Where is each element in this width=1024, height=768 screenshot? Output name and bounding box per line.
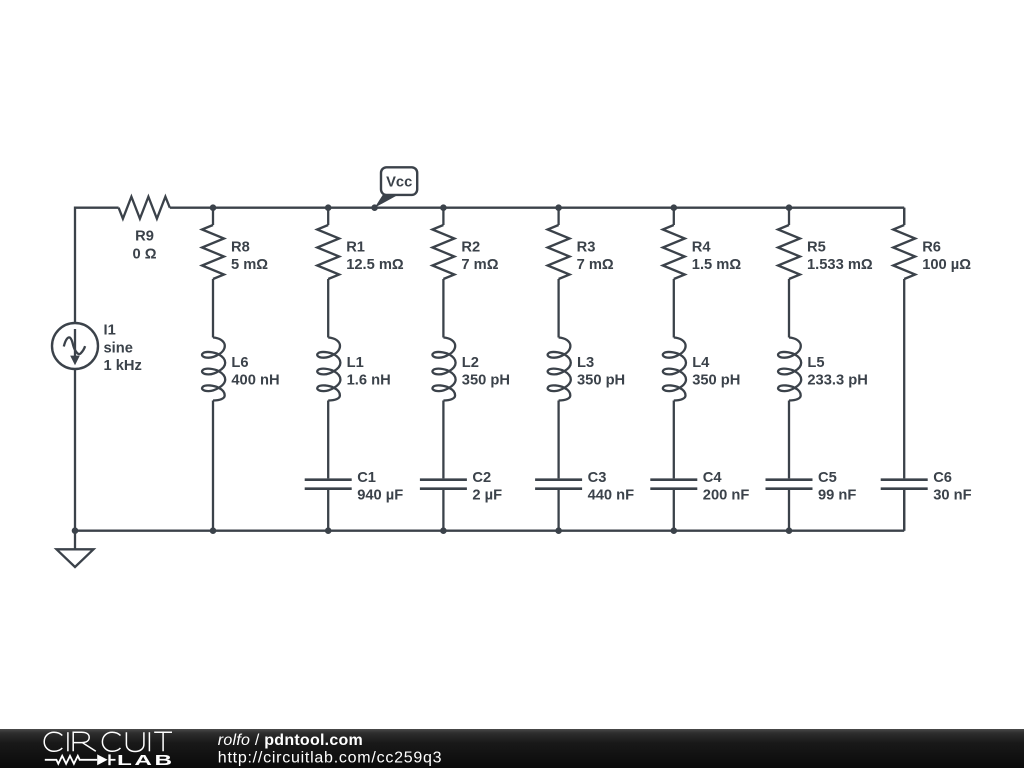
resistor R3 (548, 225, 570, 279)
node junction top of branch R4 (671, 204, 678, 211)
svg-text:99 nF: 99 nF (818, 488, 856, 504)
wire to capacitor C1 (327, 401, 329, 479)
wire R2 top lead (442, 208, 444, 225)
svg-text:1.533 mΩ: 1.533 mΩ (807, 257, 873, 273)
svg-text:30 nF: 30 nF (933, 488, 971, 504)
node junction bottom of branch R5 (786, 527, 793, 534)
wire C4 bottom lead (673, 490, 675, 531)
svg-text:I1: I1 (104, 323, 116, 339)
svg-text:100 µΩ: 100 µΩ (922, 257, 971, 273)
svg-text:1 kHz: 1 kHz (104, 358, 142, 374)
svg-text:200 nF: 200 nF (703, 488, 750, 504)
inductor L4 (663, 338, 686, 401)
ground (74, 531, 76, 550)
svg-text:http://circuitlab.com/cc259q3: http://circuitlab.com/cc259q3 (218, 750, 443, 767)
svg-text:L2: L2 (462, 355, 479, 371)
svg-text:1.6 nH: 1.6 nH (347, 373, 391, 389)
resistor R9 (119, 197, 170, 219)
wire branch R8 to bottom rail (212, 401, 214, 531)
svg-text:C5: C5 (818, 470, 837, 486)
svg-text:rolfo / pdntool.com: rolfo / pdntool.com (218, 732, 363, 749)
node junction top of branch R1 (325, 204, 332, 211)
svg-text:233.3 pH: 233.3 pH (807, 373, 867, 389)
node junction top of branch R3 (555, 204, 562, 211)
wire to capacitor C5 (788, 401, 790, 479)
svg-text:7 mΩ: 7 mΩ (577, 257, 614, 273)
wire R6 top lead (903, 208, 905, 225)
svg-text:R2: R2 (461, 240, 480, 256)
inductor L3 (548, 338, 571, 401)
svg-text:L3: L3 (577, 355, 594, 371)
wire R1 top lead (327, 208, 329, 225)
svg-text:R5: R5 (807, 240, 826, 256)
svg-text:12.5 mΩ: 12.5 mΩ (346, 257, 404, 273)
svg-text:L6: L6 (231, 355, 248, 371)
capacitor C3 (535, 478, 582, 481)
svg-text:440 nF: 440 nF (588, 488, 635, 504)
capacitor C2 (420, 478, 467, 481)
node junction bottom of branch R2 (440, 527, 447, 534)
node junction bottom-left (72, 527, 79, 534)
inductor L2 (432, 338, 455, 401)
svg-text:C4: C4 (703, 470, 723, 486)
node junction bottom of branch R1 (325, 527, 332, 534)
inductor L5 (778, 338, 801, 401)
wire right branch bottom (903, 489, 905, 531)
node Vcc junction dot (371, 204, 378, 211)
wire right branch top (903, 208, 905, 225)
resistor R8 (202, 225, 224, 279)
wire R1 to L1 (327, 279, 329, 338)
wire C5 bottom lead (788, 490, 790, 531)
resistor R6 (893, 225, 915, 279)
svg-text:R8: R8 (231, 240, 250, 256)
resistor R5 (778, 225, 800, 279)
svg-text:0 Ω: 0 Ω (132, 246, 156, 262)
node junction bottom of branch R8 (210, 527, 217, 534)
svg-text:350 pH: 350 pH (462, 373, 510, 389)
resistor R1 (317, 225, 339, 279)
svg-text:L1: L1 (347, 355, 364, 371)
svg-text:350 pH: 350 pH (692, 373, 740, 389)
wire R5 to L5 (788, 279, 790, 338)
wire R3 top lead (557, 208, 559, 225)
svg-text:5 mΩ: 5 mΩ (231, 257, 268, 273)
svg-text:1.5 mΩ: 1.5 mΩ (692, 257, 742, 273)
wire left branch lower (74, 369, 76, 531)
wire to capacitor C4 (673, 401, 675, 479)
wire C2 bottom lead (442, 490, 444, 531)
svg-text:L4: L4 (692, 355, 710, 371)
svg-text:2 µF: 2 µF (472, 488, 502, 504)
svg-text:R3: R3 (577, 240, 596, 256)
capacitor C6 (881, 478, 928, 481)
svg-text:R1: R1 (346, 240, 365, 256)
svg-text:Vcc: Vcc (386, 175, 412, 191)
wire R8 to L6 (212, 279, 214, 338)
node junction top of branch R2 (440, 204, 447, 211)
wire C1 bottom lead (327, 490, 329, 531)
svg-text:LAB: LAB (117, 753, 175, 768)
node junction bottom of branch R3 (555, 527, 562, 534)
wire R2 to L2 (442, 279, 444, 338)
resistor R2 (432, 225, 454, 279)
logo resistor-diode glyph (45, 756, 97, 764)
wire C6 bottom lead (903, 490, 905, 531)
wire to capacitor C6 (903, 279, 905, 478)
wire R5 top lead (788, 208, 790, 225)
svg-text:R6: R6 (922, 240, 941, 256)
wire to capacitor C2 (442, 401, 444, 479)
svg-text:R4: R4 (692, 240, 712, 256)
wire C3 bottom lead (557, 490, 559, 531)
wire R3 to L3 (557, 279, 559, 338)
svg-text:L5: L5 (807, 355, 824, 371)
capacitor C1 (305, 478, 352, 481)
svg-text:C6: C6 (933, 470, 952, 486)
node junction top of branch R8 (210, 204, 217, 211)
net flag Vcc (375, 194, 401, 208)
wire R4 top lead (673, 208, 675, 225)
svg-text:C3: C3 (588, 470, 607, 486)
inductor L6 (202, 338, 225, 401)
capacitor C4 (650, 478, 697, 481)
svg-text:R9: R9 (135, 229, 154, 245)
wire to capacitor C3 (557, 401, 559, 479)
node junction bottom of branch R4 (671, 527, 678, 534)
inductor L1 (317, 338, 340, 401)
wire top rail Vcc net (75, 208, 119, 323)
svg-text:sine: sine (104, 341, 133, 357)
svg-text:940 µF: 940 µF (357, 488, 403, 504)
CircuitLab logo text CIRCUIT (44, 732, 172, 751)
wire bottom rail ground net (75, 530, 904, 532)
svg-text:350 pH: 350 pH (577, 373, 625, 389)
current source I1 (52, 323, 98, 369)
capacitor C5 (766, 478, 813, 481)
svg-text:400 nH: 400 nH (231, 373, 279, 389)
footer bar (0, 729, 1024, 768)
svg-text:C2: C2 (472, 470, 491, 486)
svg-text:7 mΩ: 7 mΩ (461, 257, 498, 273)
node junction top of branch R5 (786, 204, 793, 211)
resistor R4 (663, 225, 685, 279)
svg-text:C1: C1 (357, 470, 376, 486)
wire R8 top lead (212, 208, 214, 225)
wire R4 to L4 (673, 279, 675, 338)
